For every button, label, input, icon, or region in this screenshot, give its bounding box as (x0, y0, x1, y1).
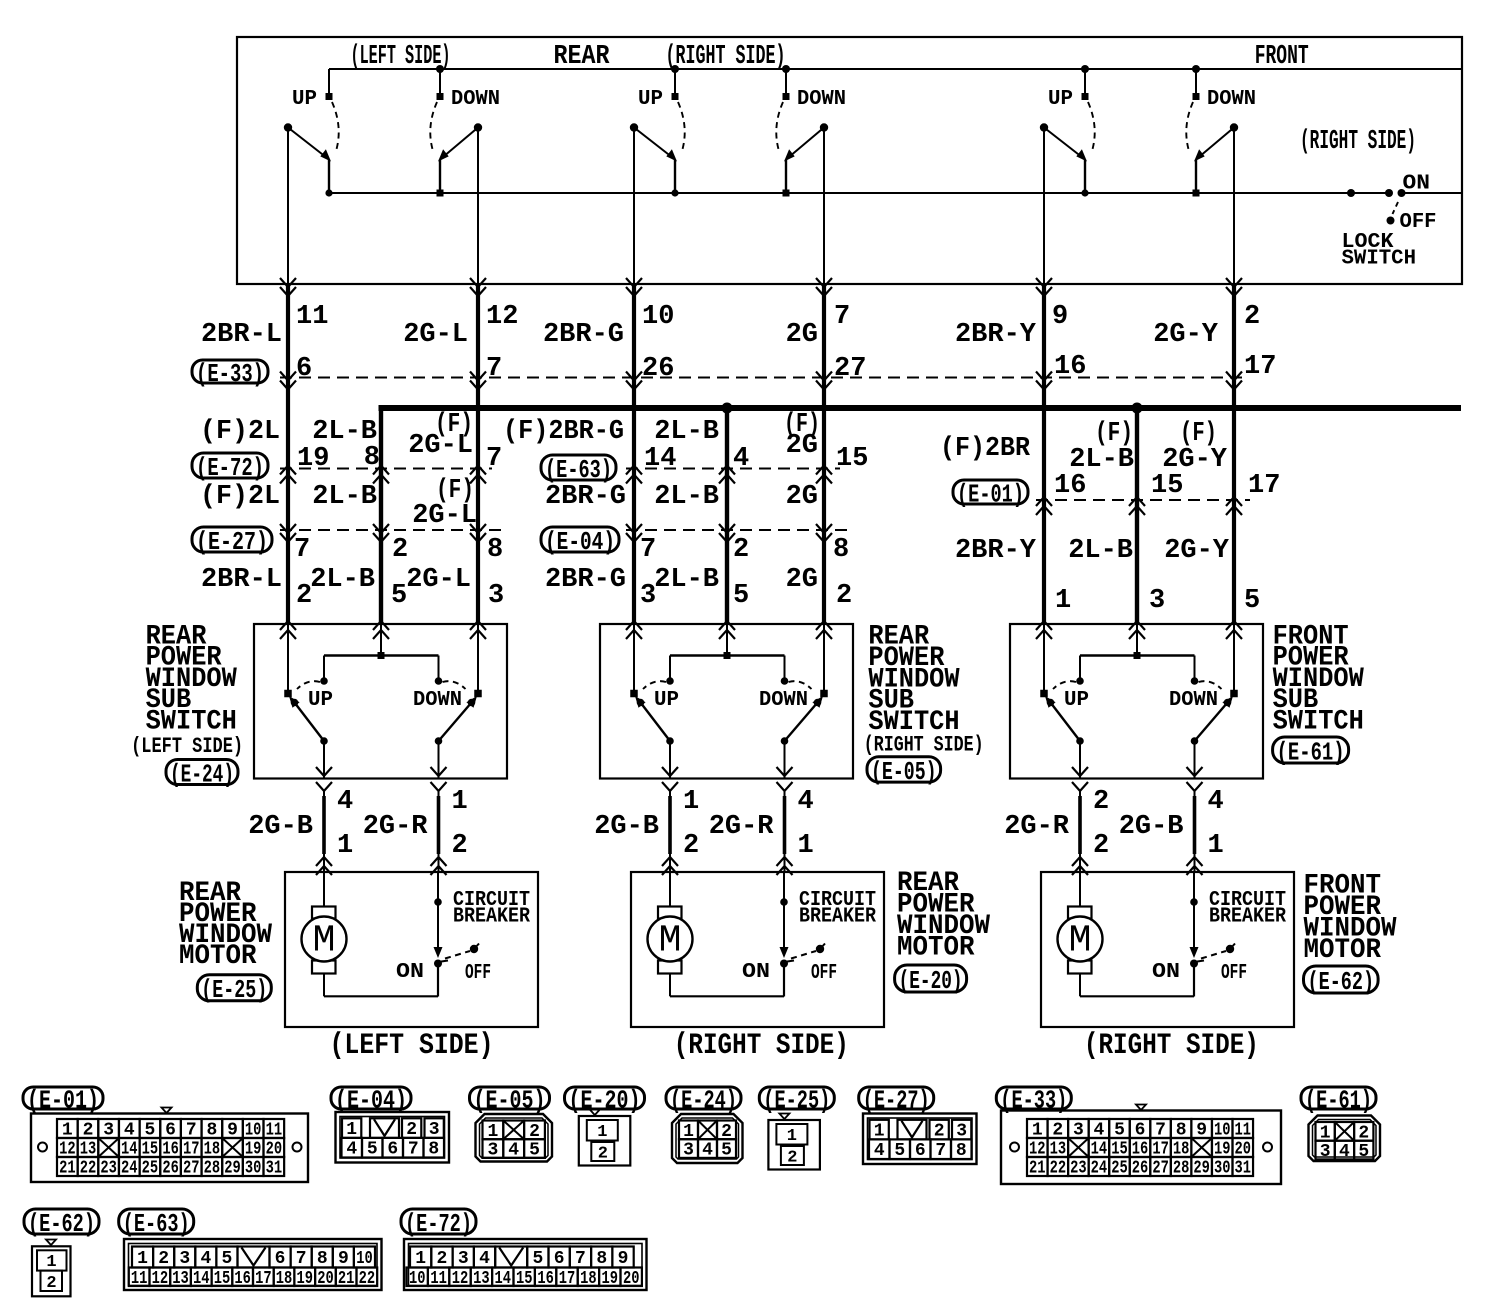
wire 2L-B feed (bus to sub sw E-24 pin 5) (379, 406, 383, 624)
svg-text:(LEFT SIDE): (LEFT SIDE) (351, 42, 451, 72)
svg-text:8: 8 (596, 1249, 607, 1269)
svg-text:19: 19 (297, 444, 329, 474)
svg-text:4: 4 (702, 1141, 713, 1161)
svg-text:21: 21 (338, 1269, 355, 1289)
svg-text:ON: ON (396, 961, 424, 984)
wire 2G-Y (main sw pin 2 to sub sw E-61 pin 5) (1233, 128, 1235, 625)
svg-text:OFF: OFF (811, 962, 837, 985)
svg-text:(E-63): (E-63) (123, 1209, 190, 1239)
svg-text:13: 13 (473, 1269, 490, 1289)
svg-text:(RIGHT SIDE): (RIGHT SIDE) (1300, 127, 1416, 157)
svg-text:5: 5 (721, 1141, 732, 1161)
svg-text:5: 5 (733, 581, 749, 611)
main switch DOWN throw (dashed) (776, 102, 783, 151)
svg-text:2G-R: 2G-R (709, 812, 775, 842)
label OFF (465, 962, 491, 985)
front power window sub switch E-61 feed split line (1076, 624, 1198, 685)
svg-text:(E-24): (E-24) (670, 1085, 737, 1115)
connector label E-63 (541, 455, 616, 485)
front power window sub switch E-61 UP throw (dashed) (1053, 681, 1076, 689)
connector label E-62 (1304, 966, 1379, 997)
svg-text:1: 1 (415, 1249, 426, 1269)
connector E-04 dashed line (626, 529, 851, 531)
wire 2G-L (main sw pin 12 to sub sw E-24 pin 3) (477, 128, 479, 625)
svg-text:(E-01): (E-01) (27, 1085, 99, 1115)
svg-text:SWITCH: SWITCH (146, 707, 237, 738)
front power window motor E-62 circuit breaker (1190, 872, 1236, 997)
main switch DOWN contact stub x1196 (1192, 65, 1200, 100)
svg-text:4: 4 (1208, 787, 1224, 817)
connector E-05 label (470, 1085, 550, 1115)
connector E-72 label (401, 1209, 476, 1239)
label OFF (1221, 962, 1247, 985)
rear power window sub switch (left side) E-24 DOWN switch (435, 624, 482, 779)
connector label E-20 (895, 965, 967, 996)
main switch DOWN blade (783, 123, 829, 196)
connector E-24 pinout (672, 1114, 743, 1163)
svg-text:(E-72): (E-72) (196, 453, 264, 483)
svg-text:11: 11 (430, 1269, 447, 1289)
svg-text:5: 5 (529, 1141, 540, 1161)
svg-text:8: 8 (364, 443, 380, 473)
power window main switch box (237, 37, 1462, 284)
svg-text:2L-B: 2L-B (654, 482, 719, 512)
svg-text:15: 15 (836, 444, 868, 474)
label ON (1152, 961, 1180, 984)
svg-text:29: 29 (1193, 1159, 1210, 1179)
svg-text:2: 2 (683, 831, 699, 861)
rear power window sub switch (left side) E-24 UP switch (284, 624, 328, 779)
svg-text:2BR-G: 2BR-G (545, 565, 626, 595)
connector E-62 label (24, 1209, 99, 1239)
connector E-61 pinout (1309, 1116, 1381, 1163)
label UP (638, 88, 663, 111)
label UP (654, 689, 679, 712)
svg-text:1: 1 (337, 831, 353, 861)
svg-text:5: 5 (894, 1141, 905, 1161)
wire 2BR-L (main sw pin 11 to sub sw E-24 pin 2) (287, 128, 289, 625)
svg-text:28: 28 (204, 1159, 221, 1179)
svg-text:7: 7 (296, 1249, 307, 1269)
svg-text:27: 27 (183, 1159, 200, 1179)
exit pin numbers (337, 787, 468, 861)
svg-text:6: 6 (554, 1249, 565, 1269)
wire 2L-B feed (bus to sub sw E-05 pin 5) (725, 408, 729, 624)
svg-text:(E-62): (E-62) (28, 1209, 95, 1239)
connector E-20 pinout (579, 1110, 631, 1166)
svg-text:8: 8 (317, 1249, 328, 1269)
main switch UP contact stub x675 (671, 65, 679, 100)
wire 2L-B crossing arrows (1129, 497, 1145, 639)
front power window sub switch E-61 UP switch (1040, 624, 1084, 779)
svg-text:2BR-Y: 2BR-Y (955, 536, 1037, 566)
svg-text:DOWN: DOWN (451, 88, 500, 111)
wire 2BR-G (main sw pin 10 to sub sw E-05 pin 3) (633, 128, 635, 625)
main switch DOWN throw (dashed) (1186, 102, 1193, 151)
svg-text:DOWN: DOWN (1207, 88, 1256, 111)
wire 2BR-Y crossing arrows (1036, 278, 1052, 639)
svg-text:6: 6 (387, 1140, 398, 1160)
svg-text:5: 5 (1244, 586, 1260, 616)
wire 2G crossing arrows (816, 278, 832, 639)
connector E-01 label (23, 1085, 103, 1115)
svg-text:30: 30 (245, 1159, 262, 1179)
svg-text:12: 12 (152, 1269, 169, 1289)
lock switch (1347, 189, 1406, 225)
svg-text:12: 12 (486, 302, 518, 332)
connector E-25 label (759, 1085, 834, 1115)
main switch UP blade (630, 123, 679, 196)
connector label E-04 (541, 527, 619, 557)
label UP (1048, 88, 1073, 111)
svg-text:6: 6 (915, 1141, 926, 1161)
wire 2G-R (sub switch to motor) (1072, 790, 1088, 875)
label DOWN (451, 88, 500, 111)
label 2G-R (1004, 812, 1070, 842)
main switch UP blade (284, 123, 333, 196)
svg-text:2BR-L: 2BR-L (201, 565, 282, 595)
svg-text:2G-Y: 2G-Y (1164, 536, 1230, 566)
main switch internal bus (top) (329, 68, 1462, 70)
svg-text:2G-Y: 2G-Y (1162, 445, 1228, 475)
svg-text:2G-R: 2G-R (1004, 812, 1070, 842)
svg-text:3: 3 (1149, 586, 1165, 616)
connector label E-01 (953, 479, 1028, 509)
label CIRCUIT BREAKER (1209, 889, 1286, 929)
svg-text:2L-B: 2L-B (654, 565, 719, 595)
label block: front power window motor (1304, 870, 1397, 966)
svg-text:3: 3 (487, 1141, 498, 1161)
svg-text:4: 4 (798, 787, 814, 817)
svg-text:(E-25): (E-25) (763, 1085, 830, 1115)
rear power window sub switch (right side) E-05 DOWN throw (dashed) (789, 681, 812, 689)
svg-text:26: 26 (1132, 1159, 1149, 1179)
svg-text:2G-B: 2G-B (594, 812, 659, 842)
svg-text:17: 17 (1248, 471, 1280, 501)
front power window sub switch E-61 DOWN throw (dashed) (1199, 681, 1222, 689)
label ON (1403, 173, 1431, 196)
svg-text:2BR-G: 2BR-G (543, 320, 624, 350)
wire 2L-B crossing arrows (373, 466, 389, 640)
label DOWN (1207, 88, 1256, 111)
svg-text:1: 1 (46, 1253, 56, 1272)
wire 2L-B crossing arrows (719, 466, 735, 640)
svg-text:MOTOR: MOTOR (897, 933, 975, 964)
label 2G-B (1119, 812, 1184, 842)
svg-text:10: 10 (356, 1249, 373, 1269)
svg-text:(LEFT SIDE): (LEFT SIDE) (131, 734, 243, 759)
pin 8 (E-72) (364, 443, 380, 473)
svg-text:3: 3 (488, 581, 504, 611)
svg-text:22: 22 (1050, 1159, 1067, 1179)
svg-text:19: 19 (297, 1269, 314, 1289)
svg-text:7: 7 (486, 354, 502, 384)
svg-text:(E-20): (E-20) (569, 1085, 641, 1115)
svg-text:18: 18 (276, 1269, 293, 1289)
wire 2G (main sw pin 7 to sub sw E-05 pin 2) (823, 128, 825, 625)
wire 2G-R (sub switch to motor) (431, 790, 447, 875)
svg-text:16: 16 (1054, 471, 1086, 501)
front power window sub switch E-61 DOWN switch (1191, 624, 1238, 779)
svg-text:2G: 2G (786, 320, 818, 350)
svg-text:2L-B: 2L-B (1069, 445, 1134, 475)
svg-text:20: 20 (623, 1269, 640, 1289)
svg-text:(F)2BR-G: (F)2BR-G (503, 417, 624, 447)
svg-text:SWITCH: SWITCH (1273, 707, 1364, 738)
svg-text:8: 8 (833, 535, 849, 565)
main switch UP throw (dashed) (1088, 102, 1095, 151)
rear power window motor (left) E-25 motor M (302, 872, 439, 996)
svg-text:(E-62): (E-62) (1308, 967, 1375, 997)
wire name labels (200, 320, 1230, 595)
connector E-72 pinout (404, 1239, 647, 1290)
svg-text:(E-61): (E-61) (1305, 1085, 1372, 1115)
main switch UP contact stub x329 (326, 69, 333, 100)
svg-text:UP: UP (1048, 88, 1073, 111)
svg-text:4: 4 (200, 1249, 211, 1269)
rear power window sub switch (left side) E-24 exit arrows (316, 767, 447, 791)
main switch common line to lock switch (329, 192, 1462, 194)
svg-text:(E-04): (E-04) (545, 527, 615, 557)
svg-text:2: 2 (437, 1249, 448, 1269)
label ON (742, 961, 770, 984)
rear power window sub switch (left side) E-24 UP throw (dashed) (297, 681, 320, 689)
bus junction node C2 (722, 403, 733, 414)
svg-text:(F)2L: (F)2L (200, 482, 280, 512)
connector E-04 label (331, 1085, 411, 1115)
label ON (396, 961, 424, 984)
svg-text:(F)2BR: (F)2BR (940, 434, 1031, 464)
bus junction node E2 (1132, 403, 1143, 414)
svg-text:29: 29 (224, 1159, 241, 1179)
wire 2G-B (sub switch to motor) (316, 790, 332, 875)
svg-text:1: 1 (1208, 831, 1224, 861)
rear power window sub switch (right side) E-05 DOWN switch (781, 624, 828, 779)
svg-text:(E-25): (E-25) (201, 975, 267, 1005)
svg-text:REAR: REAR (554, 42, 611, 72)
svg-text:(RIGHT SIDE): (RIGHT SIDE) (666, 42, 786, 72)
svg-text:OFF: OFF (465, 962, 491, 985)
svg-text:2BR-L: 2BR-L (201, 320, 282, 350)
wire 2G-B (sub switch to motor) (662, 790, 678, 875)
svg-text:(E-05): (E-05) (871, 757, 937, 787)
label block: front power window sub switch (1273, 621, 1364, 737)
connector E-27 dashed line (280, 529, 503, 531)
connector E-33 pinout (1001, 1105, 1281, 1185)
exit pin numbers (1093, 787, 1224, 861)
label CIRCUIT BREAKER (453, 889, 530, 929)
connector label E-05 (867, 757, 941, 787)
main switch UP throw (dashed) (678, 102, 685, 151)
label (RIGHT SIDE) front switch (1300, 127, 1416, 157)
svg-text:22: 22 (80, 1159, 97, 1179)
svg-text:7: 7 (294, 535, 310, 565)
connector E-62 pinout (32, 1240, 71, 1297)
svg-text:DOWN: DOWN (759, 689, 808, 712)
svg-text:UP: UP (638, 88, 663, 111)
svg-text:27: 27 (1152, 1159, 1169, 1179)
connector label E-25 (197, 975, 271, 1005)
wire 2G-Y crossing arrows (1226, 278, 1242, 639)
svg-text:2: 2 (452, 831, 468, 861)
svg-text:18: 18 (580, 1269, 597, 1289)
svg-text:2: 2 (733, 535, 749, 565)
svg-text:2G-B: 2G-B (248, 812, 313, 842)
svg-text:1: 1 (1055, 586, 1071, 616)
svg-text:(F)2L: (F)2L (200, 417, 280, 447)
svg-text:14: 14 (644, 444, 676, 474)
label block: rear power window sub switch (right side) (868, 622, 959, 738)
svg-text:7: 7 (486, 444, 502, 474)
svg-text:7: 7 (640, 535, 656, 565)
title FRONT (1255, 42, 1309, 72)
rear power window sub switch (right side) E-05 exit arrows (662, 767, 793, 791)
svg-text:6: 6 (296, 354, 312, 384)
svg-text:17: 17 (255, 1269, 272, 1289)
wire pin numbers (294, 302, 1280, 616)
connector E-04 pinout (336, 1112, 450, 1163)
svg-text:(E-05): (E-05) (474, 1085, 546, 1115)
svg-text:3: 3 (683, 1141, 694, 1161)
svg-text:30: 30 (1214, 1159, 1231, 1179)
svg-text:24: 24 (1091, 1159, 1108, 1179)
svg-text:2: 2 (787, 1149, 797, 1168)
svg-text:ON: ON (742, 961, 770, 984)
svg-text:BREAKER: BREAKER (799, 906, 876, 929)
svg-text:4: 4 (337, 787, 353, 817)
svg-text:2: 2 (836, 581, 852, 611)
svg-text:7: 7 (834, 302, 850, 332)
svg-text:M: M (1069, 920, 1092, 963)
svg-text:ON: ON (1152, 961, 1180, 984)
battery feed bus wire (379, 405, 1462, 411)
svg-text:1: 1 (683, 787, 699, 817)
wire 2G-B (sub switch to motor) (1187, 790, 1203, 875)
svg-text:11: 11 (296, 302, 328, 332)
wire 2G-R (sub switch to motor) (777, 790, 793, 875)
front power window sub switch E-61 box (1010, 624, 1263, 779)
svg-text:14: 14 (193, 1269, 210, 1289)
svg-text:3: 3 (179, 1249, 190, 1269)
rear power window sub switch (left side) E-24 box (254, 624, 507, 779)
svg-text:UP: UP (308, 689, 333, 712)
caption (RIGHT SIDE) (674, 1029, 849, 1063)
svg-text:31: 31 (266, 1159, 283, 1179)
label UP (308, 689, 333, 712)
rear power window sub switch (right side) E-05 UP throw (dashed) (643, 681, 666, 689)
connector E-33 label (996, 1085, 1071, 1115)
rear power window motor (right) E-20 motor M (648, 872, 785, 996)
svg-text:4: 4 (874, 1141, 885, 1161)
svg-text:MOTOR: MOTOR (179, 941, 257, 972)
label DOWN (759, 689, 808, 712)
svg-text:2: 2 (158, 1249, 169, 1269)
svg-text:1: 1 (452, 787, 468, 817)
title REAR (554, 42, 611, 72)
label OFF (1400, 211, 1437, 234)
svg-text:BREAKER: BREAKER (1209, 906, 1286, 929)
svg-text:8: 8 (428, 1140, 439, 1160)
svg-text:MOTOR: MOTOR (1304, 935, 1382, 966)
label 2G-B (594, 812, 659, 842)
svg-text:2G-L: 2G-L (408, 431, 473, 461)
wire 2BR-Y (main sw pin 9 to sub sw E-61 pin 1) (1043, 128, 1045, 625)
svg-text:16: 16 (234, 1269, 251, 1289)
svg-text:2L-B: 2L-B (312, 482, 377, 512)
front power window sub switch E-61 exit arrows (1072, 767, 1203, 791)
svg-text:7: 7 (408, 1140, 419, 1160)
svg-text:(RIGHT SIDE): (RIGHT SIDE) (674, 1029, 849, 1063)
svg-text:4: 4 (346, 1140, 357, 1160)
svg-text:DOWN: DOWN (1169, 689, 1218, 712)
connector label E-33 (192, 359, 268, 389)
svg-text:20: 20 (317, 1269, 334, 1289)
label CIRCUIT BREAKER (799, 889, 876, 929)
svg-text:(LEFT SIDE): (LEFT SIDE) (330, 1029, 494, 1063)
label block: rear power window sub switch (left side) (146, 621, 237, 737)
svg-text:9: 9 (1052, 302, 1068, 332)
connector E-61 label (1301, 1085, 1376, 1115)
label 2G-R (709, 812, 775, 842)
svg-text:(E-01): (E-01) (957, 479, 1024, 509)
svg-text:17: 17 (1244, 352, 1276, 382)
svg-text:14: 14 (495, 1269, 512, 1289)
svg-text:1: 1 (787, 1127, 797, 1146)
svg-text:15: 15 (1151, 471, 1183, 501)
svg-text:2: 2 (598, 1145, 608, 1164)
wire 2BR-G crossing arrows (626, 278, 642, 639)
svg-text:3: 3 (1320, 1142, 1331, 1162)
svg-text:2G-B: 2G-B (1119, 812, 1184, 842)
svg-text:(E-72): (E-72) (405, 1209, 472, 1239)
connector label E-61 (1273, 737, 1349, 767)
svg-text:15: 15 (516, 1269, 533, 1289)
svg-text:(E-20): (E-20) (899, 966, 963, 996)
caption (RIGHT SIDE) front (1084, 1029, 1259, 1063)
rear power window sub switch (right side) E-05 feed split line (666, 624, 788, 685)
connector E-63 pinout (124, 1239, 382, 1290)
svg-text:26: 26 (642, 354, 674, 384)
svg-text:27: 27 (834, 354, 866, 384)
svg-text:10: 10 (642, 302, 674, 332)
connector label E-27 (192, 527, 272, 557)
svg-text:12: 12 (452, 1269, 469, 1289)
svg-text:2G-L: 2G-L (412, 501, 477, 531)
exit pin numbers (683, 787, 814, 861)
svg-text:4: 4 (508, 1141, 519, 1161)
svg-text:2L-B: 2L-B (1068, 536, 1133, 566)
svg-text:25: 25 (1111, 1159, 1128, 1179)
svg-text:(E-27): (E-27) (196, 527, 268, 557)
svg-text:1: 1 (137, 1249, 148, 1269)
svg-text:8: 8 (956, 1141, 967, 1161)
svg-text:16: 16 (537, 1269, 554, 1289)
svg-text:2G-L: 2G-L (403, 320, 468, 350)
svg-text:26: 26 (162, 1159, 179, 1179)
svg-text:UP: UP (292, 88, 317, 111)
svg-text:(E-24): (E-24) (170, 759, 234, 789)
svg-text:2G-L: 2G-L (406, 565, 471, 595)
svg-text:FRONT: FRONT (1255, 42, 1309, 72)
svg-text:2G-Y: 2G-Y (1153, 320, 1219, 350)
svg-text:(RIGHT SIDE): (RIGHT SIDE) (1084, 1029, 1259, 1063)
svg-text:17: 17 (559, 1269, 576, 1289)
title (RIGHT SIDE) (666, 42, 786, 72)
svg-text:23: 23 (1070, 1159, 1087, 1179)
front power window motor E-62 box (1041, 872, 1294, 1027)
label UP (292, 88, 317, 111)
svg-text:21: 21 (1029, 1159, 1046, 1179)
